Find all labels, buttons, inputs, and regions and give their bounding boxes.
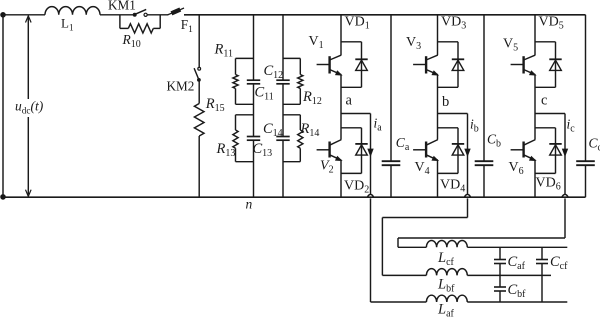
wire: string2 upper loop bbox=[283, 58, 300, 104]
resistor R10 bbox=[120, 15, 160, 50]
diode VD2 bbox=[344, 144, 369, 196]
wire: leg b upper diode loop bbox=[438, 42, 459, 88]
wire: leg c upper diode loop bbox=[535, 42, 556, 88]
svg-text:a: a bbox=[346, 93, 353, 109]
capacitor C13 bbox=[247, 137, 272, 160]
wire: phase b filtered line bbox=[467, 274, 551, 276]
inductor Laf bbox=[426, 295, 467, 317]
wire: phase c filtered line bbox=[467, 246, 567, 248]
capacitor Ccf bbox=[536, 247, 568, 302]
wire: phase b line to filter bbox=[382, 199, 467, 275]
current arrow ib bbox=[465, 117, 479, 156]
capacitor Cb (dc-link, phase b) bbox=[475, 15, 501, 197]
resistor R11 bbox=[214, 42, 239, 89]
capacitor Cc (dc-link, phase c) bbox=[576, 15, 600, 197]
wire: phase a line to filter bbox=[371, 199, 427, 302]
svg-text:KM1: KM1 bbox=[108, 0, 136, 12]
wire: top bus from terminal to L1 bbox=[3, 14, 45, 16]
wire: string1 main line bbox=[253, 15, 255, 197]
wire: phase b crossover hop at bottom bus bbox=[464, 194, 470, 199]
inductor L1 bbox=[45, 7, 100, 34]
inductor Lcf bbox=[426, 241, 467, 269]
capacitor Ca (dc-link, phase a) bbox=[382, 15, 410, 197]
node c bbox=[541, 93, 547, 109]
voltage arrow u_dc(t) bbox=[15, 16, 44, 197]
contactor KM2 bbox=[167, 15, 201, 94]
wire: leg c lower diode loop bbox=[535, 128, 556, 174]
svg-text:c: c bbox=[541, 93, 547, 109]
wire: phase c output bbox=[535, 114, 565, 195]
capacitor C12 bbox=[264, 63, 290, 84]
wire: leg a rail bbox=[340, 15, 342, 197]
capacitor Caf bbox=[494, 247, 526, 275]
IGBT V3 bbox=[406, 35, 438, 75]
wire: phase b output bbox=[438, 114, 468, 195]
IGBT V2 bbox=[317, 140, 342, 176]
IGBT V6 bbox=[509, 140, 536, 177]
fuse F1 bbox=[168, 8, 194, 35]
current arrow ia bbox=[368, 116, 382, 156]
resistor R15 bbox=[194, 81, 224, 197]
wire: phase a output bbox=[341, 114, 371, 195]
capacitor Cbf bbox=[494, 275, 526, 302]
diode VD6 bbox=[536, 144, 562, 193]
wire: string2 lower loop bbox=[283, 115, 300, 162]
inductor Lbf bbox=[426, 269, 467, 295]
svg-text:n: n bbox=[246, 197, 253, 212]
resistor R12 bbox=[298, 75, 322, 108]
current arrow ic bbox=[563, 117, 576, 156]
diode VD1 bbox=[345, 15, 370, 71]
wire: string1 lower loop bbox=[236, 115, 254, 162]
IGBT V4 bbox=[413, 140, 438, 177]
node a bbox=[346, 93, 353, 109]
wire: left vertical between terminals bbox=[2, 15, 4, 197]
wire: leg c rail bbox=[534, 15, 536, 197]
wire: leg b lower diode loop bbox=[438, 128, 459, 174]
node: positive DC terminal bbox=[1, 13, 6, 18]
IGBT V1 bbox=[309, 34, 342, 75]
wire: leg b rail bbox=[437, 15, 439, 197]
wire: KM1 to F1 bbox=[147, 14, 168, 16]
resistor R13 bbox=[216, 130, 239, 159]
node: negative DC terminal bbox=[1, 195, 6, 200]
svg-text:KM2: KM2 bbox=[167, 79, 195, 94]
wire: L1 to KM1 bbox=[100, 14, 135, 16]
wire: string2 main line bbox=[282, 15, 284, 197]
wire: phase a filtered line bbox=[467, 301, 567, 303]
wire: phase c crossover hop at bottom bus bbox=[562, 194, 568, 199]
wire: phase a crossover hop at bottom bus bbox=[367, 194, 373, 199]
node n label bbox=[246, 197, 253, 212]
diode VD3 bbox=[441, 15, 466, 71]
node b bbox=[442, 94, 449, 110]
wire: leg a upper diode loop bbox=[341, 42, 362, 88]
wire: string1 upper loop bbox=[236, 58, 254, 104]
diode VD5 bbox=[539, 15, 564, 71]
svg-text:b: b bbox=[442, 94, 449, 110]
diode VD4 bbox=[440, 144, 465, 195]
resistor R14 bbox=[298, 121, 320, 148]
contactor KM1 bbox=[108, 0, 147, 16]
capacitor C11 bbox=[247, 80, 274, 102]
wire: top bus main bbox=[184, 14, 586, 16]
IGBT V5 bbox=[503, 37, 535, 75]
wire: bottom bus bbox=[3, 196, 586, 198]
capacitor C14 bbox=[263, 121, 290, 140]
wire: phase c line to filter bbox=[398, 199, 565, 247]
wire: leg a lower diode loop bbox=[341, 128, 362, 174]
